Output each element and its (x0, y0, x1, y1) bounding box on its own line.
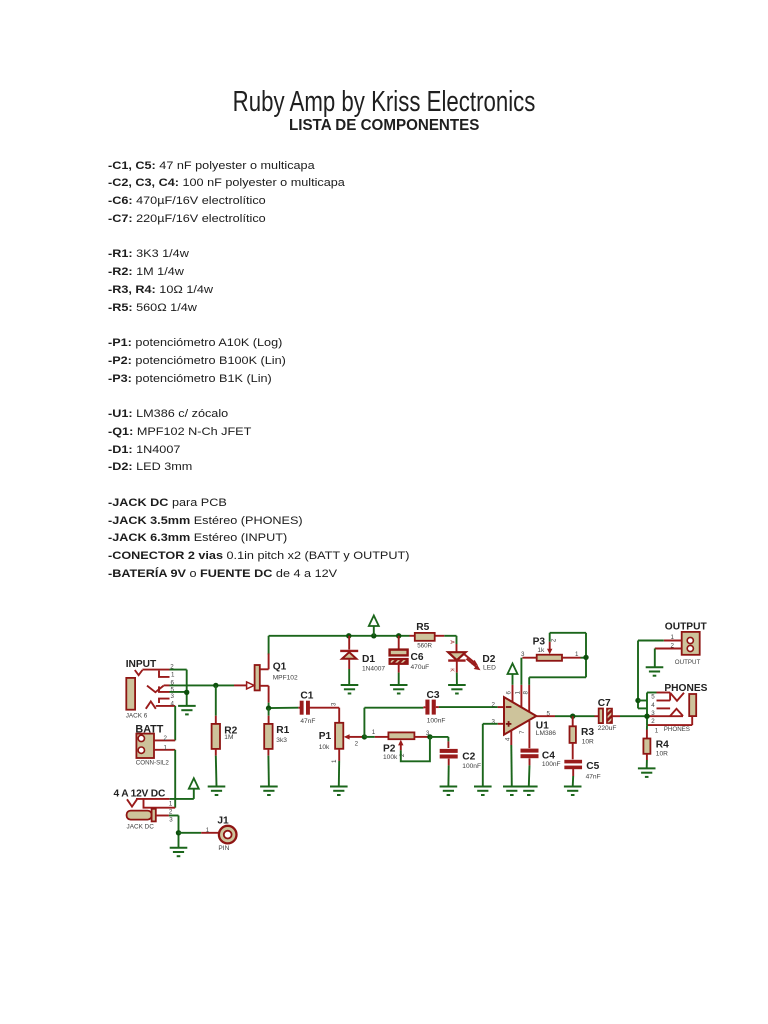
svg-text:2: 2 (164, 735, 168, 742)
svg-text:P2: P2 (383, 743, 396, 754)
svg-text:A: A (449, 640, 455, 644)
wire node to P2 pin1 (364, 729, 388, 737)
resistor R2 (212, 724, 238, 749)
ground (P1) (330, 787, 348, 796)
wire pin1 to P3 pin3 (520, 658, 522, 685)
svg-text:47nF: 47nF (586, 773, 601, 780)
wire C6 to ground (398, 673, 400, 685)
ground (R4) (638, 768, 656, 777)
wire U1 pin7 to C4 (528, 721, 530, 748)
svg-text:100nF: 100nF (542, 761, 561, 768)
svg-text:PHONES: PHONES (664, 726, 690, 733)
svg-text:1: 1 (515, 691, 522, 695)
wire P2 pin3 (414, 730, 430, 737)
svg-text:47nF: 47nF (300, 718, 315, 725)
svg-text:1: 1 (169, 801, 173, 808)
ground (C4) (520, 787, 538, 796)
wire rail to C6 (398, 636, 400, 649)
svg-text:2: 2 (671, 642, 675, 649)
ground (OUTPUT) (646, 667, 664, 676)
potentiometer P1 (319, 723, 364, 751)
wire C5 to ground (572, 769, 575, 787)
svg-text:4 A 12V DC: 4 A 12V DC (114, 789, 166, 800)
wire U1 output (536, 715, 594, 717)
svg-text:1k: 1k (537, 647, 545, 654)
power VCC arrow (U1 pin6) (508, 664, 518, 685)
wire VCC rail (269, 635, 457, 637)
svg-text:5: 5 (651, 694, 655, 701)
wire P1 to ground (331, 749, 339, 787)
node input gnd (184, 690, 189, 695)
svg-text:10R: 10R (656, 750, 668, 757)
wire input pin5 to gnd bus (170, 691, 187, 693)
svg-text:4: 4 (651, 702, 655, 709)
svg-text:1: 1 (171, 672, 175, 679)
svg-text:C7: C7 (598, 698, 611, 709)
node Q1 source (266, 705, 271, 710)
ground (INPUT) (178, 706, 196, 715)
svg-text:LED: LED (483, 665, 496, 672)
svg-text:6: 6 (171, 679, 175, 686)
potentiometer P3 (521, 636, 581, 661)
wire input pin2 to gnd bus (170, 670, 187, 706)
svg-text:P3: P3 (533, 636, 546, 647)
capacitor C4 (521, 749, 561, 768)
capacitor C5 (564, 760, 600, 781)
svg-text:C2: C2 (462, 751, 475, 762)
wire U1 pin4 to ground (510, 731, 513, 787)
wire gate to R2 (215, 685, 217, 724)
wire op-amp pin3 to ground (483, 718, 504, 786)
potentiometer P2 (383, 732, 414, 760)
wire C2 to ground (447, 759, 449, 787)
svg-text:6: 6 (506, 691, 513, 695)
connector INPUT jack J? (126, 659, 176, 720)
wire P3 wiper loop (550, 633, 586, 658)
wire U1 top pin stubs (513, 685, 530, 713)
svg-text:K: K (449, 668, 455, 672)
node gate-R2 (213, 683, 218, 688)
subtitle (0, 117, 768, 135)
wire R4 to ground (646, 754, 648, 769)
wire OUTPUT pin2 to ground (654, 649, 656, 668)
node output-R3 (570, 714, 575, 719)
svg-text:1: 1 (671, 634, 675, 641)
svg-text:C6: C6 (411, 652, 424, 663)
connector J1 PIN (206, 816, 237, 852)
wire input pin4 to BATT (174, 706, 176, 741)
connector JACK DC (4 A 12V DC) (114, 789, 176, 831)
svg-text:MPF102: MPF102 (273, 674, 298, 681)
wire phones green bus (638, 693, 657, 726)
wire R2 to ground (215, 749, 218, 787)
svg-text:PIN: PIN (218, 845, 229, 852)
svg-text:3: 3 (169, 816, 173, 823)
svg-text:Q1: Q1 (273, 661, 287, 672)
ground (pin3) (474, 787, 492, 796)
svg-text:1M: 1M (224, 734, 233, 741)
svg-text:220uF: 220uF (598, 725, 617, 732)
wire node up to C3 net (364, 708, 423, 737)
svg-text:1: 1 (331, 759, 338, 763)
transistor Q1 (234, 661, 298, 690)
connector OUTPUT (655, 621, 708, 666)
svg-text:8: 8 (522, 691, 529, 695)
wire D1 to ground (348, 669, 350, 685)
svg-text:1: 1 (164, 744, 168, 751)
wire J1 to node (179, 832, 219, 834)
page title (0, 86, 768, 119)
svg-text:CONN-SIL2: CONN-SIL2 (136, 759, 170, 766)
svg-text:JACK DC: JACK DC (127, 824, 155, 831)
ground (R1) (260, 787, 278, 796)
svg-text:1: 1 (575, 651, 579, 658)
wire C3 left stub (423, 706, 425, 709)
capacitor C1 (300, 690, 316, 725)
node rail-VCC (371, 633, 376, 638)
wire C4 to ground (528, 758, 531, 786)
ground (R2) (208, 787, 226, 796)
power VCC arrow (DC) (189, 778, 199, 789)
wire phones pin1 to R4 (646, 725, 648, 738)
svg-text:R1: R1 (276, 725, 289, 736)
resistor R3 (570, 716, 595, 745)
svg-text:560R: 560R (417, 642, 432, 649)
wire C1 to P1 (309, 702, 339, 723)
svg-text:3k3: 3k3 (276, 737, 287, 744)
svg-text:470uF: 470uF (411, 664, 430, 671)
ground (C2) (440, 787, 458, 796)
svg-text:100k: 100k (383, 754, 398, 761)
svg-text:3: 3 (171, 693, 175, 700)
svg-text:C1: C1 (300, 690, 313, 701)
connector BATT (135, 723, 175, 766)
svg-text:C5: C5 (586, 761, 599, 772)
svg-text:3: 3 (331, 702, 338, 706)
svg-text:D2: D2 (482, 654, 495, 665)
wire P1 wiper node (363, 736, 366, 738)
wire C3 to op-amp pin2 (436, 701, 504, 708)
svg-text:C3: C3 (427, 690, 440, 701)
connector PHONES jack (647, 683, 708, 735)
ground (C5) (564, 787, 582, 796)
svg-text:1N4007: 1N4007 (362, 666, 385, 673)
svg-text:2: 2 (651, 718, 655, 725)
svg-text:P1: P1 (319, 731, 332, 742)
wire BATT to DC jack (174, 750, 176, 808)
svg-text:1: 1 (206, 827, 210, 834)
ground (D2) (448, 685, 466, 694)
wire node to C2 (430, 737, 449, 748)
svg-text:2: 2 (355, 740, 359, 747)
ground (U1) (503, 787, 521, 796)
wire pin8 to P3 pin1 (529, 657, 586, 684)
wire Q1 drain (260, 636, 269, 670)
svg-text:10R: 10R (582, 739, 594, 746)
svg-text:LM386: LM386 (536, 730, 556, 737)
svg-text:3: 3 (521, 651, 525, 658)
svg-text:10k: 10k (319, 744, 330, 751)
node P1-P2 (362, 734, 367, 739)
wire R3 to C5 (572, 743, 574, 759)
svg-text:3: 3 (651, 710, 655, 717)
power VCC arrow (rail) (369, 616, 379, 636)
wire R1 to ground (267, 749, 270, 787)
ground (DC jack) (170, 848, 188, 857)
wire D2 to ground (456, 661, 458, 685)
wire Q1 source to C1 (269, 686, 301, 708)
svg-text:OUTPUT: OUTPUT (675, 659, 701, 666)
svg-text:R3: R3 (581, 727, 594, 738)
capacitor C6 (390, 650, 430, 673)
wire gate net (170, 684, 235, 686)
svg-text:2: 2 (492, 701, 496, 708)
svg-text:INPUT: INPUT (126, 659, 157, 670)
svg-text:R5: R5 (416, 622, 429, 633)
svg-text:JACK 6: JACK 6 (126, 712, 148, 719)
svg-text:1: 1 (372, 729, 376, 736)
svg-text:7: 7 (519, 730, 526, 734)
component list (108, 158, 409, 584)
wire rail to D1 (348, 636, 350, 650)
resistor R4 (643, 739, 669, 758)
svg-text:1: 1 (655, 728, 659, 735)
node rail-C6 (396, 633, 401, 638)
wire R5 to D2 (456, 636, 458, 652)
wire OUTPUT pin1 down (638, 641, 664, 709)
node phones output (644, 714, 649, 719)
node P2 pin3 (427, 734, 432, 739)
svg-text:100nF: 100nF (462, 763, 481, 770)
capacitor C3 (425, 690, 445, 725)
diode D1 (340, 651, 385, 673)
svg-text:OUTPUT: OUTPUT (665, 621, 708, 632)
ground (D1) (341, 685, 359, 694)
node rail-D1 (346, 633, 351, 638)
capacitor C7 (595, 698, 617, 732)
svg-text:D1: D1 (362, 654, 375, 665)
op-amp U1 (504, 691, 556, 742)
svg-text:R4: R4 (656, 740, 669, 751)
node phones-output (635, 698, 640, 703)
svg-text:4: 4 (171, 700, 175, 707)
resistor R5 (415, 622, 435, 649)
wire C7 to phones (612, 715, 647, 717)
capacitor C2 (440, 749, 481, 770)
resistor R1 (264, 724, 289, 749)
node DC gnd / J1 (176, 830, 181, 835)
wire DC pin3 to gnd (169, 816, 179, 848)
wire source to R1 (268, 708, 270, 724)
svg-text:100nF: 100nF (427, 718, 446, 725)
wire P2 wiper loop (401, 737, 430, 761)
wire DC tip to VCC (170, 789, 194, 799)
LED D2 (448, 640, 496, 672)
node P3 pin1 (583, 655, 588, 660)
ground (C6) (390, 685, 408, 694)
